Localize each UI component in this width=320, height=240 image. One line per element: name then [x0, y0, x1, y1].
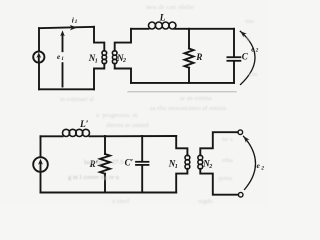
voltage arc arrow e2 bottom — [244, 136, 256, 189]
svg-text:1: 1 — [175, 164, 178, 170]
wire right loop top-right corner down to capacitor — [233, 29, 235, 56]
wire secondary top stub — [115, 29, 131, 51]
wire left rail below source (bottom) — [40, 172, 42, 193]
wire bottom horizontal (bottom circuit) — [41, 192, 177, 194]
transformer T1 secondary coil N2 — [112, 51, 117, 64]
label e2 bottom — [257, 161, 265, 171]
inductor L — [149, 22, 176, 29]
transformer T1 primary coil N1 — [102, 51, 107, 64]
wire below capacitor C' — [141, 166, 143, 193]
transformer T2 primary coil N1 — [185, 155, 190, 169]
current source circle — [33, 51, 44, 62]
terminal top (open circle) — [238, 130, 243, 135]
svg-text:-cm: -cm — [247, 71, 257, 78]
svg-text:aberna as astand: aberna as astand — [106, 122, 149, 129]
voltage arrow e1 — [60, 30, 65, 86]
paper background — [0, 0, 268, 206]
faint bleed-through text — [60, 4, 257, 205]
svg-text:a -pragressm. m: a -pragressm. m — [96, 112, 138, 119]
label N2 — [116, 53, 126, 64]
current source arrow (bottom) — [38, 159, 43, 170]
svg-text:R: R — [195, 53, 202, 63]
svg-text:ar an estima: ar an estima — [180, 95, 212, 102]
wire top horizontal inductor to corner — [175, 28, 234, 30]
wire transformer primary top stub (bottom circuit) — [176, 136, 187, 155]
svg-text:L: L — [159, 13, 166, 23]
svg-text:C: C — [242, 51, 249, 61]
svg-text:regdo: regdo — [198, 198, 213, 205]
svg-text:27.5: 27.5 — [112, 159, 123, 166]
svg-text:2: 2 — [122, 58, 126, 64]
transformer T2 secondary coil N2 — [198, 155, 203, 169]
voltage arc arrow e2 top — [240, 31, 255, 84]
faint rule under top circuit — [128, 91, 236, 93]
resistor R — [185, 29, 194, 83]
wire primary bottom stub — [94, 64, 104, 90]
label e2 top — [251, 47, 258, 54]
svg-text:etha: etha — [222, 157, 233, 164]
label R' — [89, 159, 99, 169]
wire below capacitor — [233, 62, 235, 83]
svg-text:2: 2 — [208, 164, 212, 170]
svg-text:mos de carr olisbo: mos de carr olisbo — [146, 4, 194, 11]
svg-text:g in I correr ilg re u: g in I correr ilg re u — [68, 174, 120, 181]
wire top horizontal L' to transformer — [90, 135, 177, 137]
svg-text:quina: quina — [218, 175, 233, 182]
svg-text:L′: L′ — [79, 120, 89, 130]
wire left rail above source (bottom) — [40, 136, 42, 157]
wire bottom-left horizontal — [39, 88, 94, 90]
label L' — [79, 120, 89, 130]
wire primary top stub — [94, 27, 104, 51]
label R — [195, 53, 202, 63]
label C — [242, 51, 249, 61]
wire secondary bottom stub to terminal (bottom circuit) — [200, 169, 238, 195]
wire left rail above source — [38, 28, 40, 51]
wire secondary bottom stub — [115, 64, 131, 83]
wire transformer primary bottom stub (bottom circuit) — [176, 169, 187, 193]
wire right loop bottom horizontal — [131, 82, 234, 84]
label e1 — [57, 53, 64, 62]
svg-text:2: 2 — [255, 48, 259, 53]
label N1 (bottom) — [168, 158, 178, 169]
svg-text:ne a: ne a — [222, 136, 233, 143]
svg-text:a smol: a smol — [112, 198, 129, 205]
label N2 (bottom) — [202, 158, 212, 169]
wire left rail below source — [38, 63, 40, 90]
current source circle (bottom) — [33, 157, 48, 172]
svg-text:laso ep: laso ep — [84, 159, 102, 166]
capacitor C plates — [227, 57, 240, 61]
label i1 — [72, 15, 78, 25]
wire top-left horizontal (source to transformer primary) — [39, 27, 94, 28]
label C' — [125, 157, 134, 167]
current source arrow — [36, 52, 41, 61]
label N1 — [88, 53, 98, 64]
terminal bottom (open circle) — [238, 192, 243, 197]
svg-text:sa eba steassociatro af estima: sa eba steassociatro af estima — [150, 105, 226, 112]
current arrow i1 — [70, 25, 77, 31]
wire above capacitor C' — [141, 136, 143, 161]
svg-text:-ms: -ms — [244, 18, 254, 25]
resistor R' — [100, 136, 110, 193]
svg-text:1: 1 — [95, 59, 98, 65]
svg-text:2: 2 — [260, 166, 264, 172]
svg-text:C′: C′ — [125, 157, 134, 167]
capacitor C' plates — [136, 162, 149, 165]
svg-text:1: 1 — [61, 56, 64, 62]
wire top horizontal to inductor — [131, 28, 149, 30]
inductor L' — [63, 129, 90, 136]
wire secondary top stub to terminal (bottom circuit) — [200, 132, 238, 155]
svg-text:1: 1 — [75, 19, 78, 25]
label L — [159, 13, 166, 23]
svg-text:in estimari al: in estimari al — [60, 96, 94, 103]
wire top-left horizontal to L' — [41, 135, 63, 137]
